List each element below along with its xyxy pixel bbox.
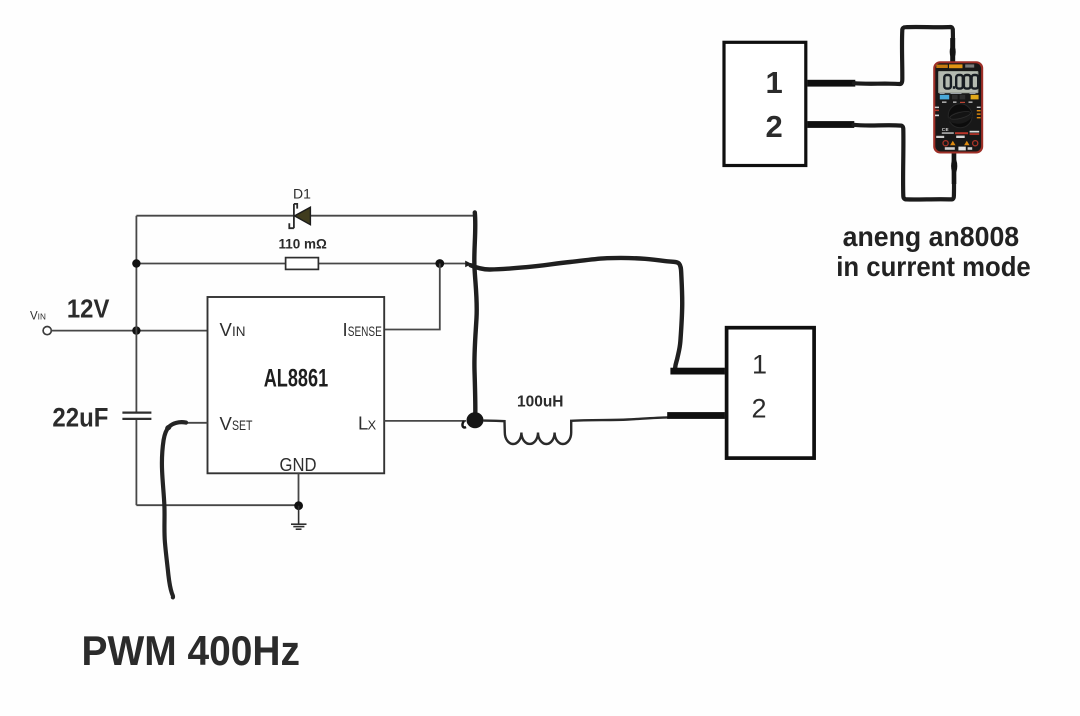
wire 110 mOhm row left	[136, 263, 285, 265]
ground	[291, 506, 307, 530]
node junction 110 mOhm row / ISENSE	[435, 259, 444, 268]
svg-text:VIN: VIN	[30, 311, 46, 323]
svg-text:in current mode: in current mode	[836, 251, 1031, 282]
svg-text:2: 2	[766, 109, 783, 144]
rotary dial	[948, 104, 972, 128]
capacitor C1 22uF plates	[122, 412, 151, 414]
svg-text:1: 1	[752, 350, 767, 380]
LCD display	[938, 71, 978, 93]
pin 2 lead lower box	[667, 412, 725, 419]
wire hand-drawn upper loop (pin1 to meter top)	[854, 27, 953, 84]
svg-text:V: V	[220, 413, 233, 434]
wire hand-drawn from 110mOhm node to LED1 pin1	[471, 258, 683, 368]
node junction GND	[294, 501, 303, 510]
wire hand-drawn lower loop (pin2 to meter bottom)	[854, 125, 955, 200]
LCD digits 0.000	[944, 75, 978, 89]
jacks row	[943, 141, 948, 146]
wire top D1 row	[136, 215, 294, 217]
node VIN input terminal	[43, 327, 51, 335]
wire PWM hand-drawn	[162, 422, 186, 597]
LED module box lower (load)	[727, 328, 815, 458]
svg-text:GND: GND	[280, 454, 317, 475]
svg-text:2: 2	[752, 394, 767, 424]
wire left rail lower	[135, 216, 137, 413]
svg-text:12V: 12V	[67, 296, 110, 324]
wire LX stub	[384, 420, 466, 422]
wire left rail upper	[135, 419, 137, 505]
svg-text:110 mΩ: 110 mΩ	[279, 237, 328, 252]
wire bottom return	[136, 504, 298, 506]
node junction left rail / 110 mOhm row	[132, 259, 140, 267]
pin 1 lead lower box	[670, 368, 725, 375]
inductor L1 100uH	[484, 417, 669, 444]
svg-text:IN: IN	[232, 324, 246, 339]
svg-text:1: 1	[766, 65, 783, 100]
svg-text:PWM 400Hz: PWM 400Hz	[82, 627, 301, 674]
buttons row	[940, 93, 945, 94]
svg-text:SENSE: SENSE	[348, 324, 382, 339]
wire VSET stub	[184, 422, 208, 424]
svg-text:100uH: 100uH	[517, 394, 564, 411]
svg-text:SET: SET	[232, 418, 253, 433]
wire VIN input horizontal	[52, 330, 208, 332]
diode D1 schottky	[289, 204, 297, 228]
multimeter ANENG AN8008	[933, 38, 983, 184]
probe lead top	[950, 38, 955, 63]
meter body	[933, 61, 983, 153]
svg-text:aneng an8008: aneng an8008	[843, 221, 1020, 252]
node junction at left rail / VIN	[132, 326, 140, 334]
node junction blob at LX / inductor	[467, 412, 484, 428]
IC U1 AL8861 body	[208, 297, 385, 473]
probe lead bottom	[952, 150, 957, 184]
svg-text:V: V	[220, 319, 233, 340]
wire GND pin down	[298, 473, 300, 505]
svg-text:X: X	[368, 418, 377, 433]
bottom battery icons	[945, 147, 955, 150]
dial surround markings	[942, 102, 947, 103]
arrowhead into hand wire	[465, 261, 472, 268]
svg-text:AL8861: AL8861	[264, 365, 329, 393]
resistor R1 110 mOhm body	[286, 258, 319, 270]
svg-text:CE: CE	[942, 127, 949, 132]
svg-text:D1: D1	[293, 186, 311, 202]
brand label	[936, 65, 948, 68]
wire ISENSE to node	[384, 264, 440, 330]
wire 110 mOhm row right	[318, 263, 465, 265]
wire thick vertical hand-drawn (D1 to LX node)	[474, 213, 476, 415]
pin 2 lead upper box	[807, 121, 854, 128]
pin 1 lead upper box	[807, 80, 855, 87]
svg-text:22uF: 22uF	[52, 402, 108, 432]
LED module box upper (reference)	[724, 42, 806, 165]
